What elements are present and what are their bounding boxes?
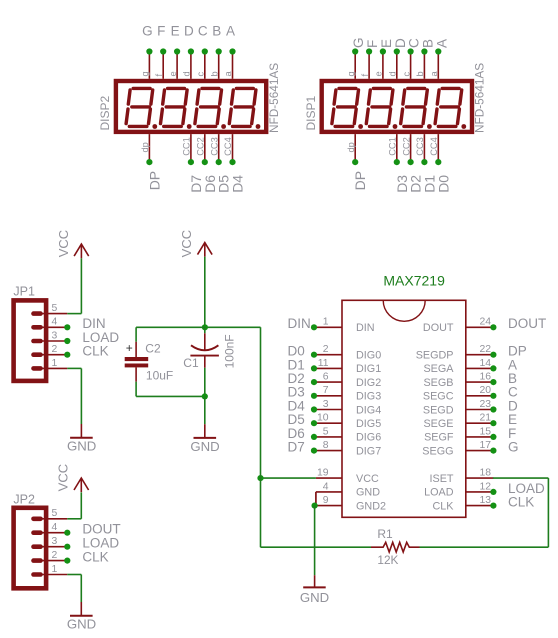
- wire VCC net to U1 pin 19: [261, 477, 316, 479]
- svg-text:e: e: [168, 71, 178, 76]
- svg-text:CC4: CC4: [223, 137, 233, 156]
- wire down to C2 plus: [135, 327, 137, 342]
- U1 pin 5 (DIG6) lead: [314, 436, 342, 438]
- wire GND net from U1 GND2 down: [314, 506, 316, 576]
- svg-text:DIN: DIN: [356, 322, 375, 334]
- capacitor C2 (polarized): [125, 341, 149, 382]
- U1 pin 14 connection dot: [490, 365, 496, 371]
- junction VCC above C1: [202, 324, 208, 330]
- svg-text:13: 13: [479, 495, 491, 506]
- U1 pin 4 (GND) lead: [316, 491, 342, 493]
- DISP2 top pin c connection dot: [202, 48, 208, 54]
- svg-text:24: 24: [479, 317, 491, 328]
- ground symbol below JP1: [70, 424, 93, 438]
- svg-text:DIG1: DIG1: [356, 363, 381, 375]
- resistor R1 zigzag: [371, 542, 420, 552]
- wire C2 bottom down: [135, 382, 137, 397]
- svg-text:GND: GND: [67, 439, 96, 454]
- svg-text:CC2: CC2: [196, 137, 206, 156]
- svg-text:CC2: CC2: [401, 137, 411, 156]
- wire C1 bottom down: [204, 368, 206, 397]
- U1 pin 21 connection dot: [490, 420, 496, 426]
- svg-text:CC3: CC3: [415, 137, 425, 156]
- DISP1 top pin e wire: [382, 52, 384, 79]
- svg-text:dp: dp: [346, 142, 356, 152]
- svg-text:LOAD: LOAD: [82, 536, 119, 551]
- junction GND below C1: [202, 393, 208, 399]
- svg-text:DP: DP: [352, 171, 368, 190]
- svg-text:G: G: [142, 24, 153, 39]
- svg-text:14: 14: [479, 358, 491, 369]
- junction at VCC vertical: [257, 475, 263, 481]
- svg-text:ISET: ISET: [430, 473, 454, 485]
- U1 pin 6 (DIG2) lead: [314, 381, 342, 383]
- svg-text:C: C: [198, 24, 208, 39]
- DISP2 bottom pin dp wire: [148, 134, 150, 162]
- svg-text:SEGC: SEGC: [423, 391, 454, 403]
- DISP2 top pin b wire: [218, 52, 220, 79]
- DISP2 digit 3 (8.): [195, 88, 226, 128]
- wire VCC riser JP2: [80, 492, 82, 519]
- wire VCC to R1 left: [261, 546, 372, 548]
- svg-text:LOAD: LOAD: [424, 487, 454, 499]
- DISP2 top pin g wire: [148, 52, 150, 79]
- U1 pin 9 (GND2) lead: [316, 505, 342, 507]
- DISP1 top pin b wire: [423, 52, 425, 79]
- svg-text:GND: GND: [300, 590, 329, 605]
- svg-text:SEGA: SEGA: [423, 363, 454, 375]
- svg-text:10: 10: [317, 413, 329, 424]
- svg-text:2: 2: [52, 550, 58, 561]
- U1 pin 15 (SEGF) lead: [466, 436, 494, 438]
- DISP2 CC3 connection dot: [216, 159, 222, 165]
- DISP1 top pin d wire: [396, 52, 398, 79]
- connector JP1 body: [14, 300, 47, 381]
- display DISP2 NFD-5641AS body: [116, 81, 266, 132]
- svg-text:6: 6: [323, 372, 329, 383]
- svg-text:E: E: [171, 24, 180, 39]
- U1 pin 13 connection dot: [490, 503, 496, 509]
- U1 pin 6 connection dot: [311, 379, 317, 385]
- DISP2 top pin a connection dot: [229, 48, 235, 54]
- svg-text:DOUT: DOUT: [82, 522, 120, 537]
- svg-text:g: g: [346, 71, 356, 76]
- U1 pin 23 connection dot: [490, 406, 496, 412]
- DISP1 digit 2 (8.): [366, 88, 397, 128]
- svg-text:b: b: [209, 71, 219, 76]
- display DISP1 NFD-5641AS body: [322, 81, 472, 132]
- svg-text:VCC: VCC: [356, 473, 379, 485]
- svg-text:NFD-5641AS: NFD-5641AS: [267, 63, 281, 133]
- JP1 pin 4 connection dot: [64, 324, 70, 330]
- JP1 pin 5 pad: [34, 311, 68, 316]
- U1 pin 12 (LOAD) lead: [466, 491, 494, 493]
- supply symbol VCC arrow: [74, 478, 89, 492]
- DISP1 CC4 connection dot: [435, 159, 441, 165]
- U1 pin 5 connection dot: [311, 434, 317, 440]
- supply symbol VCC arrow: [198, 243, 213, 257]
- DISP1 digit 3 (8.): [401, 88, 432, 128]
- JP1 pin 2 connection dot: [64, 352, 70, 358]
- svg-text:SEGD: SEGD: [423, 404, 454, 416]
- U1 pin 1 (DIN) lead: [314, 326, 342, 328]
- DISP2 bottom pin CC4 wire: [232, 134, 234, 162]
- DISP2 top pin g connection dot: [146, 48, 152, 54]
- DISP2 bottom pin CC3 wire: [218, 134, 220, 162]
- DISP2 top pin d connection dot: [188, 48, 194, 54]
- DISP2 CC2 connection dot: [202, 159, 208, 165]
- svg-text:12: 12: [479, 481, 491, 492]
- JP1 pin 2 pad: [34, 352, 68, 357]
- svg-text:d: d: [182, 71, 192, 76]
- svg-text:JP2: JP2: [13, 492, 35, 506]
- svg-text:18: 18: [479, 468, 491, 479]
- svg-text:CC4: CC4: [429, 137, 439, 156]
- svg-text:22: 22: [479, 344, 491, 355]
- svg-text:B: B: [420, 39, 435, 48]
- svg-text:16: 16: [479, 372, 491, 383]
- DISP2 top pin b connection dot: [216, 48, 222, 54]
- U1 pin 10 (DIG5) lead: [314, 422, 342, 424]
- ground symbol below C1: [194, 424, 217, 438]
- U1 pin 1 connection dot: [311, 324, 317, 330]
- svg-text:100nF: 100nF: [223, 334, 237, 368]
- JP2 pin 5 pad: [34, 516, 68, 521]
- capacitor C1: [190, 333, 219, 368]
- svg-text:F: F: [365, 40, 380, 48]
- svg-text:DIG6: DIG6: [356, 432, 381, 444]
- U1 pin 20 (SEGC) lead: [466, 395, 494, 397]
- svg-text:VCC: VCC: [56, 464, 71, 491]
- JP1 pin 3 connection dot: [64, 338, 70, 344]
- svg-text:CC1: CC1: [182, 137, 192, 156]
- svg-text:VCC: VCC: [179, 230, 194, 257]
- U1 pin 13 (CLK) lead: [466, 505, 494, 507]
- wire GND drop JP1: [80, 368, 82, 424]
- DISP2 top pin a wire: [232, 52, 234, 79]
- JP2 pin 1 pad: [34, 572, 68, 577]
- svg-text:a: a: [429, 71, 439, 77]
- connector JP2 body: [14, 508, 47, 589]
- svg-text:G: G: [351, 37, 366, 48]
- ground symbol below U1: [303, 575, 326, 587]
- svg-text:DIG2: DIG2: [356, 377, 381, 389]
- svg-text:E: E: [379, 39, 394, 48]
- svg-text:a: a: [223, 71, 233, 77]
- svg-text:VCC: VCC: [56, 230, 71, 257]
- svg-text:C1: C1: [183, 356, 199, 370]
- svg-text:SEGB: SEGB: [423, 377, 453, 389]
- DISP2 top pin f wire: [162, 52, 164, 79]
- DISP2 dp pin connection dot: [146, 159, 152, 165]
- U1 pin 16 (SEGB) lead: [466, 381, 494, 383]
- svg-text:DIG0: DIG0: [356, 350, 381, 362]
- svg-text:DIN: DIN: [288, 316, 311, 331]
- svg-text:12K: 12K: [377, 553, 398, 567]
- svg-text:2: 2: [323, 344, 329, 355]
- DISP1 bottom pin CC1 wire: [396, 134, 398, 162]
- svg-text:4: 4: [323, 481, 329, 492]
- svg-text:21: 21: [479, 413, 491, 424]
- U1 pin 11 connection dot: [311, 365, 317, 371]
- svg-text:CC1: CC1: [387, 137, 397, 156]
- svg-text:A: A: [434, 39, 449, 48]
- DISP2 top pin d wire: [190, 52, 192, 79]
- U1 pin 24 (DOUT) lead: [466, 326, 494, 328]
- DISP2 top pin e wire: [176, 52, 178, 79]
- DISP2 top pin e connection dot: [174, 48, 180, 54]
- JP2 pin 4 connection dot: [64, 530, 70, 536]
- DISP1 bottom pin CC3 wire: [423, 134, 425, 162]
- DISP1 bottom pin CC4 wire: [437, 134, 439, 162]
- wire GND drop JP2: [80, 575, 82, 603]
- svg-text:GND: GND: [356, 487, 380, 499]
- U1 pin 23 (SEGD) lead: [466, 409, 494, 411]
- U1 pin 2 (DIG0) lead: [314, 354, 342, 356]
- DISP2 top pin c wire: [204, 52, 206, 79]
- U1 pin 7 connection dot: [311, 393, 317, 399]
- U1 pin 17 connection dot: [490, 448, 496, 454]
- svg-text:4: 4: [52, 522, 58, 533]
- DISP1 dp pin connection dot: [352, 159, 358, 165]
- wire ISET to U1 pin 18: [493, 477, 549, 479]
- DISP1 digit 1 (8.): [332, 88, 363, 128]
- svg-text:D7: D7: [288, 440, 305, 455]
- svg-text:CC3: CC3: [209, 137, 219, 156]
- svg-text:CLK: CLK: [82, 550, 108, 565]
- svg-text:5: 5: [323, 426, 329, 437]
- U1 pin 7 (DIG3) lead: [314, 395, 342, 397]
- DISP1 top pin b connection dot: [421, 48, 427, 54]
- wire VCC vertical run: [260, 327, 262, 547]
- DISP2 bottom pin CC1 wire: [190, 134, 192, 162]
- svg-text:G: G: [508, 440, 519, 455]
- svg-text:c: c: [196, 72, 206, 77]
- svg-text:DIG7: DIG7: [356, 445, 381, 457]
- DISP1 top pin f connection dot: [366, 48, 372, 54]
- svg-text:DOUT: DOUT: [508, 316, 546, 331]
- DISP2 top pin f connection dot: [160, 48, 166, 54]
- svg-text:D: D: [393, 38, 408, 48]
- JP2 pin 2 connection dot: [64, 558, 70, 564]
- DISP1 digit 4 (8.): [435, 88, 466, 128]
- svg-text:DIG4: DIG4: [356, 404, 381, 416]
- svg-text:JP1: JP1: [13, 285, 35, 299]
- svg-text:DP: DP: [146, 171, 162, 190]
- junction at U1 GND2: [312, 503, 318, 509]
- wire JP1 pin5 to VCC: [67, 313, 81, 315]
- wire R1 right to ISET riser: [420, 546, 549, 548]
- ground symbol below JP2: [70, 602, 93, 616]
- U1 pin 8 connection dot: [311, 448, 317, 454]
- wire JP1 pin1 to GND: [67, 367, 81, 369]
- wire down to ground: [204, 396, 206, 424]
- U1 pin 8 (DIG7) lead: [314, 450, 342, 452]
- svg-text:DISP1: DISP1: [304, 95, 318, 130]
- wire JP2 pin1 to GND: [67, 574, 81, 576]
- U1 pin 3 (DIG4) lead: [314, 409, 342, 411]
- svg-text:4: 4: [52, 317, 58, 328]
- U1 pin 24 connection dot: [490, 324, 496, 330]
- DISP1 top pin c connection dot: [408, 48, 414, 54]
- svg-text:SEGG: SEGG: [422, 445, 453, 457]
- svg-text:NFD-5641AS: NFD-5641AS: [473, 63, 487, 133]
- DISP1 CC3 connection dot: [421, 159, 427, 165]
- svg-text:1: 1: [323, 317, 329, 328]
- JP2 pin 3 connection dot: [64, 544, 70, 550]
- svg-text:f: f: [154, 74, 164, 77]
- U1 pin 22 connection dot: [490, 352, 496, 358]
- DISP1 top pin g connection dot: [352, 48, 358, 54]
- svg-text:d: d: [387, 71, 397, 76]
- svg-text:DIG5: DIG5: [356, 418, 381, 430]
- JP2 pin 3 pad: [34, 544, 68, 549]
- JP1 pin 3 pad: [34, 339, 68, 344]
- DISP1 CC2 connection dot: [408, 159, 414, 165]
- DISP1 top pin c wire: [410, 52, 412, 79]
- wire ISET riser: [547, 478, 549, 547]
- supply symbol VCC arrow: [74, 244, 89, 258]
- svg-text:23: 23: [479, 399, 491, 410]
- JP2 pin 2 pad: [34, 558, 68, 563]
- svg-text:7: 7: [323, 385, 329, 396]
- DISP2 bottom pin CC2 wire: [204, 134, 206, 162]
- svg-text:2: 2: [52, 344, 58, 355]
- svg-text:CLK: CLK: [508, 495, 534, 510]
- U1 pin 17 (SEGG) lead: [466, 450, 494, 452]
- DISP2 CC1 connection dot: [188, 159, 194, 165]
- svg-text:D0: D0: [435, 175, 451, 193]
- U1 pin 12 connection dot: [490, 489, 496, 495]
- svg-text:17: 17: [479, 440, 491, 451]
- svg-text:GND: GND: [67, 617, 96, 632]
- svg-text:8: 8: [323, 440, 329, 451]
- svg-text:MAX7219: MAX7219: [383, 272, 445, 288]
- DISP1 top pin f wire: [368, 52, 370, 79]
- svg-text:20: 20: [479, 385, 491, 396]
- DISP2 digit 4 (8.): [229, 88, 260, 128]
- svg-text:SEGF: SEGF: [424, 432, 454, 444]
- JP2 pin 4 pad: [34, 530, 68, 535]
- op IC U1 MAX7219 outline: [342, 300, 466, 517]
- DISP1 bottom pin CC2 wire: [410, 134, 412, 162]
- wire VCC horizontal to C1 junction: [205, 326, 261, 328]
- DISP1 top pin g wire: [354, 52, 356, 79]
- U1 pin 11 (DIG1) lead: [314, 367, 342, 369]
- svg-text:11: 11: [318, 358, 329, 369]
- svg-text:C: C: [407, 38, 422, 48]
- svg-text:3: 3: [323, 399, 329, 410]
- U1 pin 15 connection dot: [490, 434, 496, 440]
- DISP1 top pin a connection dot: [435, 48, 441, 54]
- svg-text:5: 5: [52, 508, 58, 519]
- U1 pin 20 connection dot: [490, 393, 496, 399]
- U1 pin 19 (VCC) lead: [316, 477, 342, 479]
- U1 pin 3 connection dot: [311, 406, 317, 412]
- svg-text:1: 1: [52, 358, 58, 369]
- svg-text:19: 19: [317, 468, 329, 479]
- DISP1 top pin a wire: [437, 52, 439, 79]
- svg-text:1: 1: [52, 564, 58, 575]
- svg-text:R1: R1: [377, 527, 393, 541]
- svg-text:dp: dp: [140, 142, 150, 152]
- svg-text:F: F: [157, 24, 165, 39]
- svg-text:+: +: [126, 341, 133, 355]
- svg-text:9: 9: [323, 495, 329, 506]
- U1 pin 2 connection dot: [311, 352, 317, 358]
- DISP2 digit 1 (8.): [126, 88, 157, 128]
- svg-text:C2: C2: [145, 341, 161, 355]
- DISP1 top pin e connection dot: [380, 48, 386, 54]
- svg-text:SEGDP: SEGDP: [416, 350, 454, 362]
- svg-text:10uF: 10uF: [146, 368, 173, 382]
- U1 GND pin4-to-pin9 jog: [315, 492, 317, 506]
- svg-text:DOUT: DOUT: [423, 322, 454, 334]
- wire VCC riser JP1: [80, 258, 82, 313]
- wire JP2 pin5 to VCC: [67, 518, 81, 520]
- DISP1 CC1 connection dot: [394, 159, 400, 165]
- svg-text:GND: GND: [190, 439, 219, 454]
- svg-text:A: A: [226, 24, 235, 39]
- svg-text:B: B: [212, 24, 221, 39]
- DISP1 top pin d connection dot: [394, 48, 400, 54]
- wire junction to C1 top: [204, 327, 206, 333]
- wire VCC to C2 branch: [136, 326, 205, 328]
- DISP1 bottom pin dp wire: [354, 134, 356, 162]
- svg-text:DISP2: DISP2: [98, 95, 112, 130]
- U1 pin 18 (ISET) lead: [466, 477, 494, 479]
- U1 pin 14 (SEGA) lead: [466, 367, 494, 369]
- U1 pin 10 connection dot: [311, 420, 317, 426]
- svg-text:b: b: [415, 71, 425, 76]
- svg-text:3: 3: [52, 536, 58, 547]
- U1 pin 16 connection dot: [490, 379, 496, 385]
- wire C2 bottom to GND junction: [136, 395, 205, 397]
- svg-text:f: f: [360, 74, 370, 77]
- U1 pin 21 (SEGE) lead: [466, 422, 494, 424]
- JP1 pin 4 pad: [34, 325, 68, 330]
- svg-text:DIG3: DIG3: [356, 391, 381, 403]
- svg-text:CLK: CLK: [82, 344, 108, 359]
- svg-text:3: 3: [52, 330, 58, 341]
- svg-text:D4: D4: [230, 175, 246, 193]
- JP1 pin 1 pad: [34, 366, 68, 371]
- svg-text:CLK: CLK: [432, 500, 454, 512]
- svg-text:GND2: GND2: [356, 500, 386, 512]
- svg-text:D: D: [184, 24, 194, 39]
- wire VCC arrow to junction: [204, 257, 206, 328]
- DISP2 CC4 connection dot: [229, 159, 235, 165]
- svg-text:5: 5: [52, 303, 58, 314]
- svg-text:g: g: [140, 71, 150, 76]
- svg-text:15: 15: [479, 426, 491, 437]
- svg-text:c: c: [401, 72, 411, 77]
- DISP2 digit 2 (8.): [161, 88, 192, 128]
- U1 pin 22 (SEGDP) lead: [466, 354, 494, 356]
- svg-text:e: e: [374, 71, 384, 76]
- svg-text:SEGE: SEGE: [423, 418, 453, 430]
